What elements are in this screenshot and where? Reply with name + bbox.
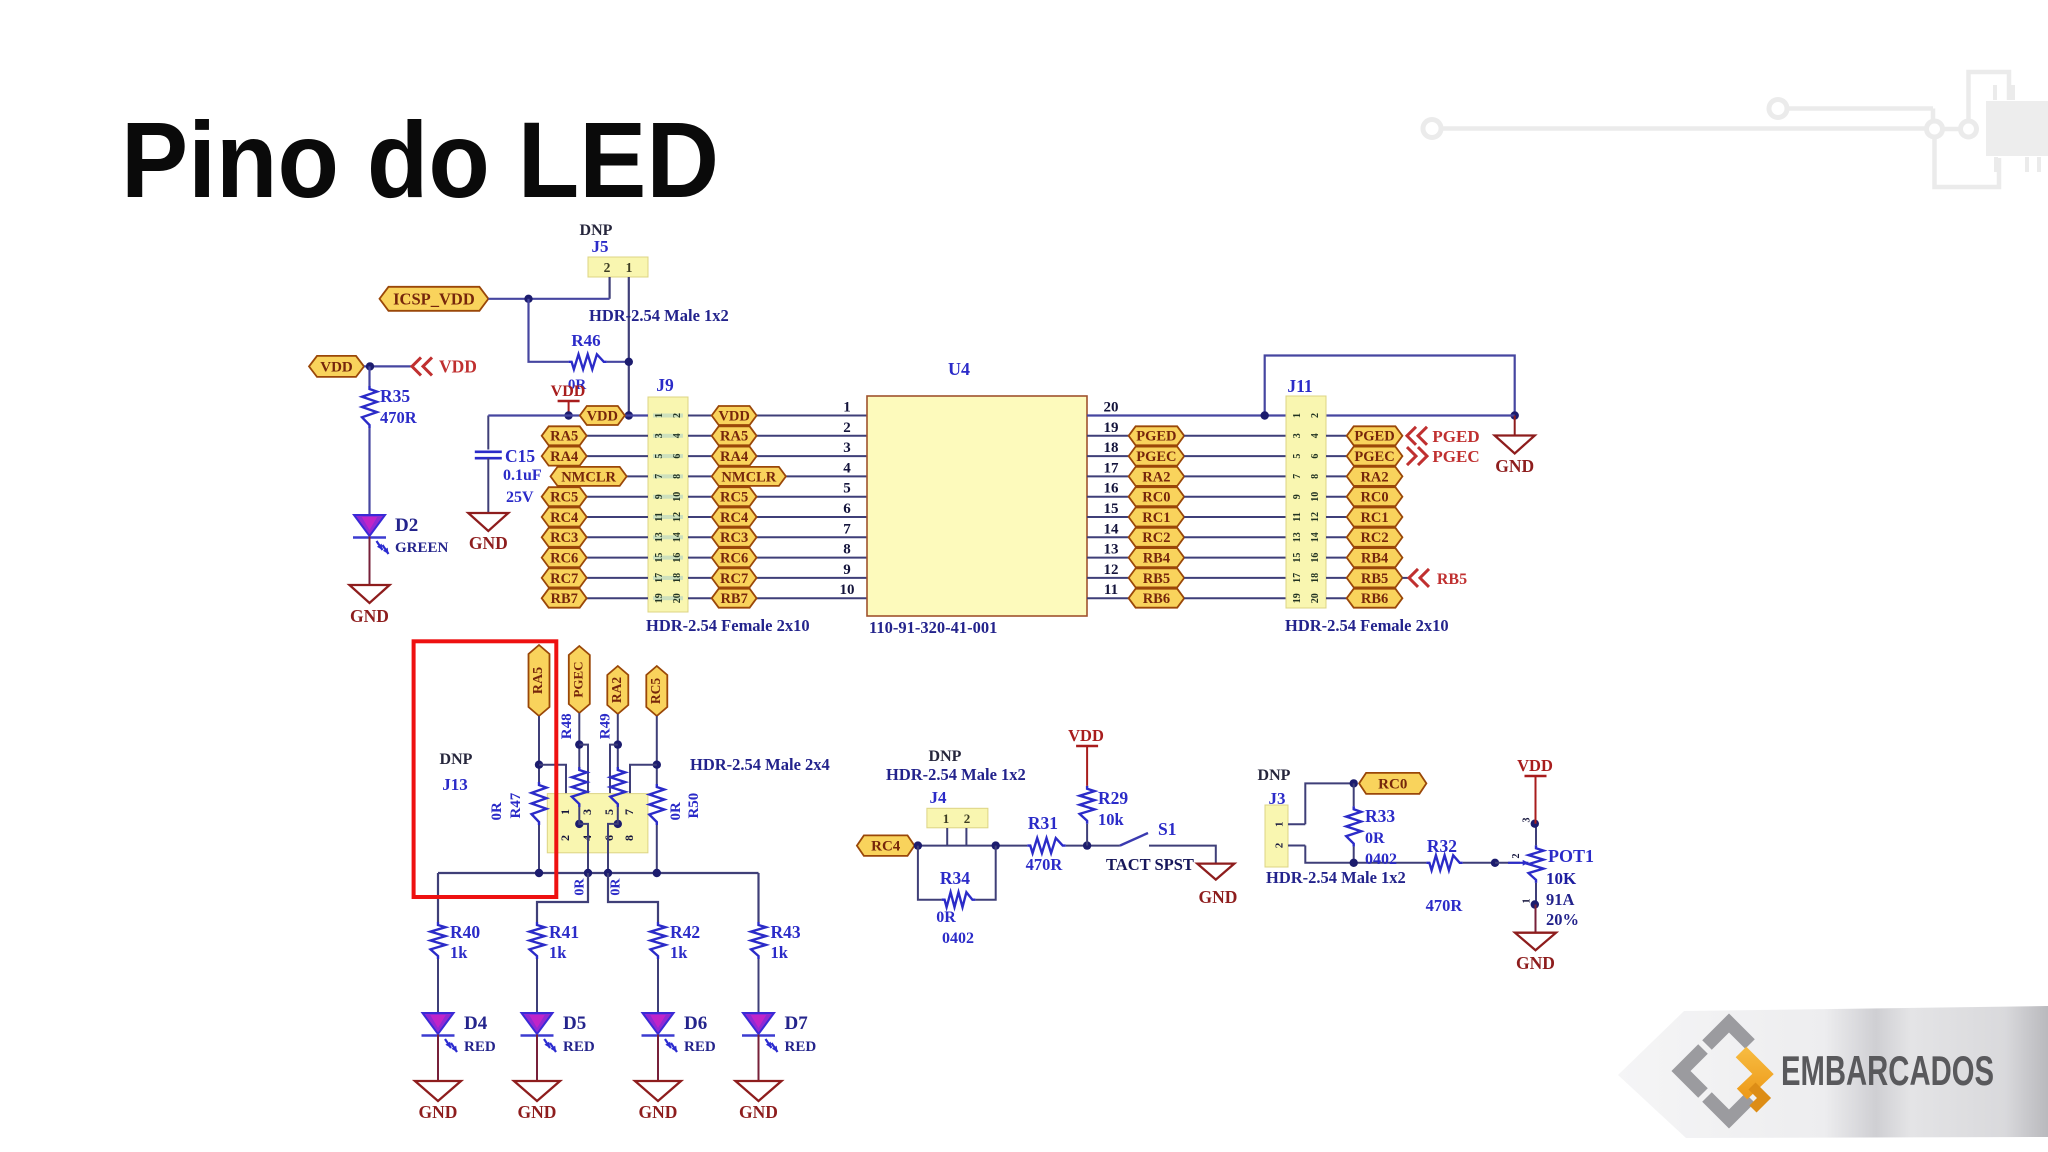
logo diamond gray bottom chevron xyxy=(1707,1097,1750,1119)
wire D2 to GND xyxy=(369,537,371,586)
svg-text:RB6: RB6 xyxy=(1361,591,1388,607)
svg-text:15: 15 xyxy=(654,553,665,563)
svg-text:16: 16 xyxy=(1310,553,1321,563)
wire J9 row RA5 left xyxy=(542,435,648,437)
resistor R46 xyxy=(568,331,629,393)
wire R49 to bus jog xyxy=(608,807,618,873)
junction bus pin6 xyxy=(604,869,612,877)
svg-text:15: 15 xyxy=(1292,553,1303,563)
wire R47 to bus xyxy=(538,825,540,873)
resistor R34 bypass loop xyxy=(918,846,996,947)
port PGEC xyxy=(1407,447,1480,466)
wire J9 row RC4 right xyxy=(688,516,867,518)
net label RC4 xyxy=(857,835,915,856)
svg-text:HDR-2.54 Male 1x2: HDR-2.54 Male 1x2 xyxy=(886,765,1026,784)
slide title xyxy=(121,99,719,220)
junction R48 lower xyxy=(575,820,583,828)
svg-text:RC2: RC2 xyxy=(1142,530,1170,546)
wire J3 pin2 to bottom rail xyxy=(1288,846,1426,863)
svg-text:10: 10 xyxy=(1310,492,1321,502)
svg-text:5: 5 xyxy=(843,481,851,497)
junction RA2 column xyxy=(614,740,622,748)
svg-text:HDR-2.54 Male 1x2: HDR-2.54 Male 1x2 xyxy=(589,306,729,325)
svg-text:Pino do LED: Pino do LED xyxy=(121,99,719,220)
svg-text:R31: R31 xyxy=(1028,813,1058,833)
junction J5 line on VDD row xyxy=(625,411,633,419)
svg-text:0R: 0R xyxy=(936,909,956,926)
junction bus RC5 xyxy=(653,869,661,877)
wire J9 row RC7 right xyxy=(688,577,867,579)
junction on ICSP_VDD wire xyxy=(524,295,532,303)
net label RA5 (J9 left) xyxy=(542,426,587,445)
junction bus pin4 xyxy=(584,869,592,877)
wire R43 to D7 xyxy=(758,959,760,1013)
svg-text:1: 1 xyxy=(1274,822,1286,828)
LED D2 xyxy=(353,515,449,556)
svg-text:VDD: VDD xyxy=(439,357,477,377)
logo orange chevron xyxy=(1741,1052,1763,1094)
svg-text:0R: 0R xyxy=(572,878,587,896)
wire J5 pin1 to VDD row xyxy=(628,277,630,416)
wire RC2 flag to J11 xyxy=(1184,536,1286,538)
svg-text:18: 18 xyxy=(1104,440,1119,456)
svg-text:RC5: RC5 xyxy=(648,678,663,704)
ground below POT1 xyxy=(1515,933,1556,973)
svg-text:RB7: RB7 xyxy=(550,591,577,607)
wire PGED flag to J11 xyxy=(1184,435,1286,437)
net label RB4 (J11 left) xyxy=(1129,548,1185,567)
wire R31 to S1 xyxy=(1066,845,1120,847)
svg-text:2: 2 xyxy=(672,413,683,418)
svg-text:2: 2 xyxy=(558,835,572,841)
svg-text:7: 7 xyxy=(622,809,636,815)
wire R48 to bus jog xyxy=(579,807,588,873)
wire J9 row RC4 left xyxy=(542,516,648,518)
svg-text:RC5: RC5 xyxy=(550,490,578,506)
svg-text:15: 15 xyxy=(1104,501,1119,517)
svg-text:2: 2 xyxy=(1274,842,1286,848)
pin number 2 U4 left xyxy=(843,420,851,436)
net label PGEC (vertical) xyxy=(569,646,590,713)
svg-text:1: 1 xyxy=(1292,413,1303,418)
wire U4 to RC0 flag xyxy=(1087,496,1129,498)
svg-text:4: 4 xyxy=(672,433,683,438)
wire U4 to PGED flag xyxy=(1087,435,1129,437)
wire J11 pin2 to GND junction xyxy=(1326,414,1515,416)
svg-text:R43: R43 xyxy=(771,922,801,942)
svg-text:DNP: DNP xyxy=(929,748,962,765)
resistor R50 xyxy=(649,784,702,825)
net label RC4 (J9 left) xyxy=(542,508,587,527)
wire bus down to R43 xyxy=(757,873,759,922)
svg-text:VDD: VDD xyxy=(1517,756,1553,775)
wire J9 row NMCLR right xyxy=(688,475,867,477)
connector J9 designator xyxy=(656,375,674,395)
svg-text:1k: 1k xyxy=(670,943,688,962)
svg-text:RC3: RC3 xyxy=(720,530,748,546)
wire S1 to ground xyxy=(1149,846,1216,864)
svg-text:PGED: PGED xyxy=(1432,427,1479,446)
svg-text:19: 19 xyxy=(654,593,665,603)
svg-text:1: 1 xyxy=(943,811,950,826)
svg-text:4: 4 xyxy=(580,835,594,841)
wire J9 row RA4 right xyxy=(688,455,867,457)
wire RC4 to R31 xyxy=(915,845,1028,847)
svg-text:1: 1 xyxy=(654,413,665,418)
label R48 (rotated) xyxy=(559,713,575,739)
svg-text:RB4: RB4 xyxy=(1361,551,1388,567)
svg-text:3: 3 xyxy=(654,433,665,438)
wire RC5 column xyxy=(656,716,658,784)
svg-text:6: 6 xyxy=(843,501,851,517)
net label RA2 (vertical) xyxy=(607,666,628,714)
net label RB6 (J11 right) xyxy=(1347,589,1403,608)
wire RA2 column xyxy=(617,714,619,767)
net label RC4 (J9 right) xyxy=(712,508,757,527)
svg-text:1: 1 xyxy=(843,400,851,416)
wire PGEC column xyxy=(578,713,580,767)
net label NMCLR (J9 left) xyxy=(551,467,627,486)
svg-text:RA4: RA4 xyxy=(550,449,578,465)
svg-text:RB4: RB4 xyxy=(1143,551,1170,567)
net label RB7 (J9 left) xyxy=(542,589,587,608)
svg-text:9: 9 xyxy=(1292,494,1303,499)
wire J11 to PGED right flag xyxy=(1326,435,1347,437)
ground below D2 xyxy=(350,585,390,626)
wire U4 to RC1 flag xyxy=(1087,516,1129,518)
label HDR-2.54 Male 1x2 for J4 xyxy=(886,765,1026,784)
connector J9 body xyxy=(648,397,688,612)
label 0R jumper right (rotated) xyxy=(609,878,624,896)
logo text EMBARCADOS xyxy=(1781,1047,1994,1094)
svg-text:GND: GND xyxy=(518,1102,557,1122)
svg-text:1k: 1k xyxy=(450,943,468,962)
wire RC1 flag to J11 xyxy=(1184,516,1286,518)
svg-text:RB5: RB5 xyxy=(1361,571,1388,587)
net label RA2 (J11 left) xyxy=(1129,467,1185,486)
svg-text:D5: D5 xyxy=(563,1013,586,1034)
svg-text:0R: 0R xyxy=(489,802,505,821)
junction POT1 wiper xyxy=(1491,859,1499,867)
wire RC0 flag to J11 xyxy=(1184,496,1286,498)
resistor R33 xyxy=(1346,783,1397,868)
wire U4 to RA2 flag xyxy=(1087,475,1129,477)
connector J4 designator xyxy=(930,788,948,807)
junction VDD power on row xyxy=(564,411,572,419)
connector J3 designator xyxy=(1269,789,1286,808)
junction RC4 xyxy=(914,841,922,849)
svg-text:S1: S1 xyxy=(1158,819,1176,839)
svg-text:NMCLR: NMCLR xyxy=(561,469,616,485)
wire RB5 to port xyxy=(1402,577,1409,579)
svg-text:RED: RED xyxy=(464,1039,496,1055)
connector J13 designator xyxy=(442,775,468,794)
net label RC2 (J11 left) xyxy=(1129,528,1185,547)
pin number 14 U4 right xyxy=(1104,521,1120,537)
wire PGEC flag to J11 xyxy=(1184,455,1286,457)
pin number 18 U4 right xyxy=(1104,440,1119,456)
svg-text:PGEC: PGEC xyxy=(1354,449,1394,465)
svg-text:R35: R35 xyxy=(380,386,410,406)
LED D5 xyxy=(521,1013,595,1055)
svg-text:RA5: RA5 xyxy=(550,429,578,445)
wire J11 to RA2 right flag xyxy=(1326,475,1347,477)
label HDR-2.54 Female 2x10 for J11 xyxy=(1285,616,1449,635)
ground right of J11 xyxy=(1495,416,1535,477)
svg-text:GND: GND xyxy=(469,533,508,553)
svg-text:20%: 20% xyxy=(1546,910,1579,929)
pin number 13 U4 right xyxy=(1104,542,1119,558)
svg-text:RC0: RC0 xyxy=(1142,490,1170,506)
label DNP for J13 xyxy=(440,751,473,768)
wire RB4 flag to J11 xyxy=(1184,557,1286,559)
svg-text:11: 11 xyxy=(1104,582,1118,598)
resistor R43 xyxy=(751,922,801,962)
svg-text:10: 10 xyxy=(840,582,855,598)
net label RC5 (J9 right) xyxy=(712,487,757,506)
svg-text:J11: J11 xyxy=(1287,376,1312,396)
LED D7 xyxy=(742,1013,816,1055)
svg-text:RB6: RB6 xyxy=(1143,591,1170,607)
svg-text:10k: 10k xyxy=(1098,810,1125,829)
wire J5 pin2 stub xyxy=(608,277,610,299)
wire J11 to RB5 right flag xyxy=(1326,577,1347,579)
wire J9 row RC7 left xyxy=(542,577,648,579)
svg-text:3: 3 xyxy=(843,440,851,456)
svg-text:7: 7 xyxy=(1292,474,1303,479)
svg-text:RED: RED xyxy=(563,1039,595,1055)
svg-text:18: 18 xyxy=(1310,573,1321,583)
resistor R49 xyxy=(610,767,625,807)
wire R35 to D2 xyxy=(368,428,370,515)
svg-text:RC4: RC4 xyxy=(871,839,901,855)
net label NMCLR (J9 right) xyxy=(712,467,786,486)
svg-text:1: 1 xyxy=(558,809,572,815)
svg-text:RA2: RA2 xyxy=(1142,469,1170,485)
connector J3 body xyxy=(1265,805,1288,867)
svg-text:HDR-2.54 Female 2x10: HDR-2.54 Female 2x10 xyxy=(1285,616,1449,635)
wire J11 to PGEC right flag xyxy=(1326,455,1347,457)
port VDD red chevrons xyxy=(412,357,477,377)
svg-text:VDD: VDD xyxy=(718,408,749,424)
svg-text:R40: R40 xyxy=(450,922,480,942)
svg-text:ICSP_VDD: ICSP_VDD xyxy=(393,289,475,308)
resistor R32 xyxy=(1426,836,1464,915)
wire bus down to R40 xyxy=(437,873,439,922)
svg-text:RC7: RC7 xyxy=(550,571,578,587)
svg-text:RB5: RB5 xyxy=(1143,571,1170,587)
net label RC0 (J11 left) xyxy=(1129,487,1185,506)
wire RB6 flag to J11 xyxy=(1184,597,1286,599)
svg-text:RED: RED xyxy=(785,1039,817,1055)
LED D4 xyxy=(422,1013,496,1055)
red highlight box xyxy=(414,641,557,897)
svg-text:RC4: RC4 xyxy=(550,510,578,526)
svg-text:R48: R48 xyxy=(559,713,575,739)
wire U4 to PGEC flag xyxy=(1087,455,1129,457)
net label RA2 (J11 right) xyxy=(1347,467,1403,486)
svg-text:20: 20 xyxy=(1104,400,1119,416)
wire J9 row RB7 right xyxy=(688,597,867,599)
pin number 11 U4 right xyxy=(1104,582,1118,598)
wire J9 row RC6 left xyxy=(542,557,648,559)
wire J9 row RB7 left xyxy=(542,597,648,599)
pin number 3 U4 left xyxy=(843,440,851,456)
svg-text:8: 8 xyxy=(843,542,851,558)
wire J9 row VDD left xyxy=(488,414,648,416)
svg-text:RB5: RB5 xyxy=(1437,571,1467,588)
svg-text:D2: D2 xyxy=(395,515,418,536)
svg-text:R29: R29 xyxy=(1098,788,1128,808)
svg-text:R49: R49 xyxy=(598,713,614,739)
pin number 7 U4 left xyxy=(843,521,851,537)
svg-text:PGEC: PGEC xyxy=(1432,447,1479,466)
svg-text:DNP: DNP xyxy=(440,751,473,768)
svg-text:20: 20 xyxy=(1310,593,1321,603)
svg-text:5: 5 xyxy=(1292,454,1303,459)
wire RA5 column xyxy=(538,716,540,782)
net label RB7 (J9 right) xyxy=(712,589,757,608)
svg-text:470R: 470R xyxy=(380,408,418,427)
net label PGED (J11 left) xyxy=(1129,426,1185,445)
svg-text:VDD: VDD xyxy=(551,383,586,400)
power flag VDD above POT1 xyxy=(1517,756,1553,824)
port RB5 xyxy=(1409,569,1467,588)
svg-text:10K: 10K xyxy=(1546,869,1577,888)
label HDR-2.54 Female 2x10 for J9 xyxy=(646,616,810,635)
svg-text:HDR-2.54 Male 2x4: HDR-2.54 Male 2x4 xyxy=(690,755,830,774)
svg-text:17: 17 xyxy=(654,573,665,583)
svg-text:C15: C15 xyxy=(505,446,535,466)
ground right of S1 xyxy=(1197,864,1237,907)
svg-text:RB7: RB7 xyxy=(720,591,747,607)
svg-text:9: 9 xyxy=(843,562,851,578)
svg-text:RA4: RA4 xyxy=(720,449,748,465)
junction R29 bottom xyxy=(1083,841,1091,849)
svg-text:GND: GND xyxy=(1495,456,1534,476)
wire POT1 to ground xyxy=(1535,905,1537,933)
svg-text:RC2: RC2 xyxy=(1360,530,1388,546)
svg-text:RA5: RA5 xyxy=(531,667,546,694)
net label RC3 (J9 right) xyxy=(712,528,757,547)
net label RC7 (J9 right) xyxy=(712,568,757,587)
pin number 15 U4 right xyxy=(1104,501,1119,517)
resistor R40 xyxy=(431,922,481,962)
svg-text:1: 1 xyxy=(1521,899,1532,904)
svg-text:GND: GND xyxy=(739,1102,778,1122)
pin number 17 U4 right xyxy=(1104,460,1120,476)
wire J3 pin1 to RC0 xyxy=(1288,783,1354,824)
svg-text:3: 3 xyxy=(580,809,594,815)
svg-text:GND: GND xyxy=(639,1102,678,1122)
net label RC0 (J11 right) xyxy=(1347,487,1403,506)
wire J9 row RA5 right xyxy=(688,435,867,437)
svg-text:J13: J13 xyxy=(442,775,468,794)
LED D6 xyxy=(642,1013,716,1055)
ground below D7 xyxy=(736,1081,782,1122)
wire LED bus horizontal xyxy=(438,872,759,874)
svg-text:3: 3 xyxy=(1521,818,1532,823)
net label RA4 (J9 right) xyxy=(712,447,757,466)
logo orange arrow dark xyxy=(1752,1086,1764,1109)
svg-text:2: 2 xyxy=(604,260,611,275)
svg-text:13: 13 xyxy=(1292,532,1303,542)
wire J9 row RC3 left xyxy=(542,536,648,538)
connector J11 designator xyxy=(1287,376,1312,396)
junction RA5 column xyxy=(535,761,543,769)
svg-text:R50: R50 xyxy=(686,793,702,819)
wire J11 to RB4 right flag xyxy=(1326,557,1347,559)
svg-text:0R: 0R xyxy=(668,802,684,821)
svg-text:1k: 1k xyxy=(549,943,567,962)
net label RA5 (J9 right) xyxy=(712,426,757,445)
svg-text:R32: R32 xyxy=(1427,836,1457,856)
svg-text:10: 10 xyxy=(672,492,683,502)
svg-text:19: 19 xyxy=(1292,593,1303,603)
net label VDD (J9 left) xyxy=(580,406,625,425)
wire J9 row RC5 left xyxy=(542,496,648,498)
net label VDD left xyxy=(309,356,364,377)
wire J9 row NMCLR left xyxy=(551,475,649,477)
wire D6 to ground xyxy=(657,1035,659,1082)
svg-text:13: 13 xyxy=(654,532,665,542)
svg-text:5: 5 xyxy=(654,454,665,459)
resistor R31 xyxy=(1026,813,1066,874)
svg-text:RC4: RC4 xyxy=(720,510,748,526)
power flag VDD red at J9 xyxy=(551,383,586,416)
net label RA5 (vertical) xyxy=(529,645,550,716)
wire U4 pin20 to J11 pin1 xyxy=(1087,414,1286,416)
wire J11 to RC0 right flag xyxy=(1326,496,1347,498)
svg-text:GND: GND xyxy=(419,1102,458,1122)
connector J11 body xyxy=(1286,396,1326,608)
svg-text:14: 14 xyxy=(1310,532,1321,542)
svg-text:J9: J9 xyxy=(656,375,674,395)
pin number 16 U4 right xyxy=(1104,481,1120,497)
svg-text:470R: 470R xyxy=(1426,896,1464,915)
svg-text:2: 2 xyxy=(1310,413,1321,418)
svg-text:17: 17 xyxy=(1292,573,1303,583)
wire U4 to RB5 flag xyxy=(1087,577,1129,579)
svg-text:DNP: DNP xyxy=(1258,767,1291,784)
port PGED xyxy=(1407,427,1480,446)
wire D7 to ground xyxy=(758,1035,760,1082)
svg-text:RA2: RA2 xyxy=(1360,469,1388,485)
svg-text:D4: D4 xyxy=(464,1013,488,1034)
wire U4 to RC2 flag xyxy=(1087,536,1129,538)
svg-text:4: 4 xyxy=(843,460,851,476)
svg-text:4: 4 xyxy=(1310,433,1321,438)
wire bus to R41 jog xyxy=(537,873,588,922)
svg-text:5: 5 xyxy=(602,809,616,815)
pin number 8 U4 left xyxy=(843,542,851,558)
label HDR-2.54 Male 1x2 for J3 xyxy=(1266,868,1406,887)
svg-text:GREEN: GREEN xyxy=(395,540,449,556)
resistor R29 xyxy=(1080,786,1129,846)
wire R42 to D6 xyxy=(657,959,659,1013)
junction R46 right xyxy=(625,358,633,366)
pin number 19 U4 right xyxy=(1104,420,1119,436)
pin number 9 U4 left xyxy=(843,562,851,578)
pin number 10 U4 left xyxy=(840,582,855,598)
connector J5 designator xyxy=(592,237,609,256)
label HDR-2.54 Male 2x4 for J13 xyxy=(690,755,830,774)
svg-text:16: 16 xyxy=(1104,481,1120,497)
junction RC5 column xyxy=(653,761,661,769)
svg-text:0402: 0402 xyxy=(1365,851,1397,868)
svg-text:14: 14 xyxy=(1104,521,1120,537)
resistor R42 xyxy=(651,922,701,962)
